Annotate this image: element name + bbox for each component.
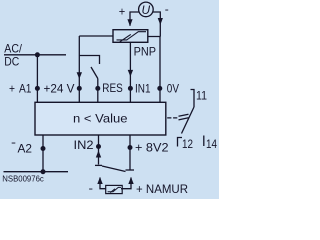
junction dot IN1 xyxy=(128,86,133,91)
wire A1 drop xyxy=(36,55,38,103)
relay actuator marks xyxy=(179,114,189,116)
arrow NAMUR left up xyxy=(97,177,102,184)
arrow U right xyxy=(158,18,163,25)
junction dot RES xyxy=(95,86,100,91)
wire AC/DC supply rail xyxy=(4,54,66,56)
NAMUR loop left lead xyxy=(100,178,106,189)
junction dot 0V xyxy=(157,86,162,91)
voltage source U right lead xyxy=(153,12,160,37)
svg-text:+ NAMUR: + NAMUR xyxy=(136,182,188,196)
voltage source U xyxy=(139,2,154,17)
junction dot 8V2 xyxy=(128,145,133,150)
svg-text:IN1: IN1 xyxy=(135,81,151,95)
wire A2 bottom rail xyxy=(4,171,69,173)
arrow PNP output down xyxy=(128,70,133,77)
relay terminal 12 tick xyxy=(178,138,183,147)
svg-text:11: 11 xyxy=(196,88,207,102)
svg-text:-: - xyxy=(165,2,169,16)
wire RES vertical xyxy=(97,79,99,103)
arrow U left xyxy=(127,19,132,26)
svg-text:+24 V: +24 V xyxy=(44,81,75,95)
relay terminal 11 lead xyxy=(191,90,195,108)
svg-text:-: - xyxy=(89,181,94,195)
proximity sensor PNP box xyxy=(113,30,148,43)
switch RES blade xyxy=(91,67,98,79)
relay terminal 14 tick xyxy=(203,136,205,147)
wire 24V branch to RES switch xyxy=(79,56,99,65)
junction dot IN2 xyxy=(96,144,101,149)
svg-text:0V: 0V xyxy=(167,81,179,95)
svg-text:n < Value: n < Value xyxy=(73,112,128,126)
wire 8V2 vertical xyxy=(129,135,131,170)
svg-text:DC: DC xyxy=(4,54,19,68)
switch 8V2 tick xyxy=(126,169,135,171)
wire sensor box left feed xyxy=(79,35,113,37)
junction dot 24V xyxy=(77,86,82,91)
svg-text:14: 14 xyxy=(206,137,217,151)
svg-text:A2: A2 xyxy=(18,141,33,155)
wire sensor box right to 0V xyxy=(148,37,161,103)
junction dot A2 xyxy=(41,146,46,151)
svg-text:NSB00976c: NSB00976c xyxy=(2,174,44,183)
svg-text:12: 12 xyxy=(182,137,193,151)
function block n < Value xyxy=(35,102,166,135)
svg-text:PNP: PNP xyxy=(134,45,156,59)
switch IN2/8V2 blade xyxy=(102,166,126,172)
junction dot A1 xyxy=(35,86,40,91)
junction dot A1 tap xyxy=(35,52,40,57)
wire IN2 vertical xyxy=(98,135,100,165)
svg-text:+: + xyxy=(119,5,126,19)
NAMUR sensor box xyxy=(106,185,123,193)
svg-text:-: - xyxy=(11,135,16,149)
mechanical link dashed xyxy=(167,117,177,119)
wire A2 vertical xyxy=(42,135,44,172)
arrow IN2 up xyxy=(96,151,101,158)
NAMUR loop right lead xyxy=(121,178,131,189)
voltage source U left lead xyxy=(130,12,139,26)
relay contact blade 11-12 xyxy=(182,107,195,134)
wire 24V vertical xyxy=(78,36,80,102)
junction dot A2 rail xyxy=(41,169,46,174)
svg-text:IN2: IN2 xyxy=(74,138,94,152)
svg-text:+ 8V2: + 8V2 xyxy=(135,140,169,154)
wire PNP output to IN1 xyxy=(129,42,131,102)
svg-text:+: + xyxy=(9,81,15,95)
svg-text:U: U xyxy=(142,3,151,17)
arrow NAMUR right up xyxy=(128,177,133,184)
switch IN2 tick xyxy=(95,164,102,166)
svg-text:A1: A1 xyxy=(19,81,32,95)
svg-text:RES: RES xyxy=(102,81,123,95)
arrow 24V down xyxy=(77,72,82,79)
